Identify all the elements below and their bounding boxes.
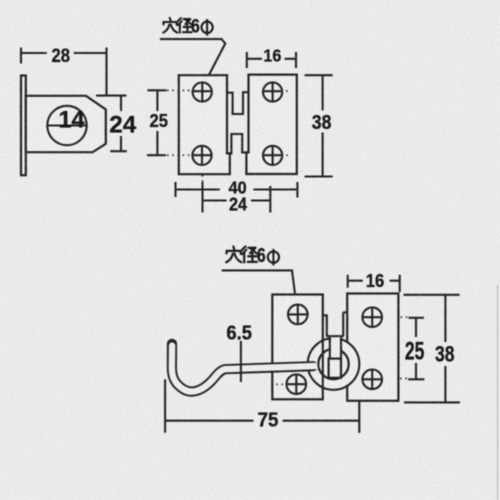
- dotted stubs C right: [400, 317, 408, 378]
- faint right edge artifact: [497, 285, 499, 500]
- hole C1: [288, 305, 308, 325]
- dim 25 bottom fig: [408, 318, 424, 380]
- hole C2: [287, 374, 307, 394]
- dim 38 right: [305, 75, 333, 176]
- ring inner redraw: [318, 349, 348, 379]
- leader underline bottom: [222, 270, 297, 306]
- hole B3: [263, 82, 282, 101]
- staple neck: [330, 337, 341, 359]
- dim 16 bottom: [348, 275, 400, 292]
- dim 25 left: [147, 90, 166, 155]
- right plate: [246, 75, 296, 174]
- dim 6.5 leader: [240, 341, 242, 382]
- hole circle 14: [47, 106, 86, 145]
- label hole-dia 6phi bottom: [226, 246, 241, 262]
- dim 75: [165, 379, 359, 433]
- hole C3: [362, 307, 382, 327]
- paper noise: [0, 0, 1, 1]
- hook black: [172, 344, 313, 392]
- dotted stubs right of holes: [281, 91, 290, 155]
- dim 24 lower: [203, 182, 271, 213]
- dim 38 bottom fig: [404, 295, 460, 403]
- label hole-dia 6phi top: [163, 18, 177, 33]
- dim 40: [176, 182, 298, 198]
- left plate: [179, 75, 230, 174]
- dim 28 line: [21, 48, 107, 97]
- wall plate: [21, 76, 26, 176]
- left plate edge through ring: [322, 339, 324, 390]
- hole B2: [192, 146, 211, 165]
- hole B1: [192, 82, 212, 101]
- dim 24: [96, 96, 127, 152]
- hole B4: [263, 146, 282, 165]
- staple block: [329, 359, 341, 378]
- knuckle C top: [323, 312, 347, 336]
- right plate C: [347, 294, 398, 401]
- hook white core: [172, 346, 318, 392]
- bracket body: [26, 96, 106, 152]
- dotted hole stub C left: [271, 383, 286, 385]
- left plate C: [272, 295, 323, 400]
- dim 16 top: [247, 52, 296, 68]
- hole C4: [362, 370, 382, 390]
- ring eye: [308, 338, 360, 390]
- knuckle bottom: [227, 134, 248, 153]
- knuckle top U: [227, 92, 249, 114]
- leader underline: [160, 39, 225, 82]
- dotted centerlines left: [167, 90, 194, 155]
- diameter line: [47, 124, 86, 126]
- dotted hole center drop: [202, 175, 204, 182]
